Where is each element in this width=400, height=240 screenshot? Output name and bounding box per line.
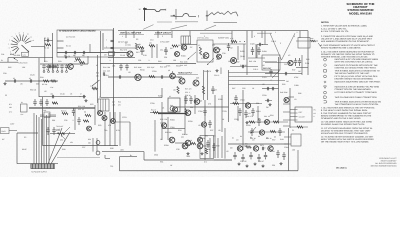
svg-text:R48 250K: R48 250K — [280, 91, 288, 94]
label br — [232, 135, 276, 140]
waveform W3 trace — [208, 11, 239, 16]
capacitor C61 — [282, 152, 285, 160]
ground — [85, 99, 87, 100]
capacitor C1B — [106, 45, 114, 48]
transistor Q29 — [161, 123, 166, 128]
wire stub5 — [289, 96, 295, 98]
capacitor C2 row — [46, 65, 57, 71]
capacitor C29 — [52, 127, 55, 135]
potentiometer RV1 — [50, 129, 75, 139]
transistor Q30 — [201, 122, 206, 127]
wire — [256, 45, 258, 59]
transistor Q21 — [284, 97, 289, 102]
transistor Q5 — [168, 69, 175, 79]
label cluster2 — [112, 100, 121, 106]
label SWEEP — [154, 32, 172, 35]
svg-text:B. FILM TYPES ARE 1% TOL.: B. FILM TYPES ARE 1% TOL. — [321, 30, 349, 33]
transistor Q25 — [253, 146, 258, 151]
svg-text:WITH THE CONTROLS SET AS LISTE: WITH THE CONTROLS SET AS LISTED. — [335, 61, 374, 64]
ground — [280, 162, 282, 163]
heavy signal path — [158, 113, 186, 115]
wire — [200, 32, 232, 34]
svg-text:R12 470: R12 470 — [120, 48, 127, 51]
wire — [228, 70, 230, 122]
wire — [0, 61, 18, 63]
svg-text:THE METAL CHASSIS OF THE UNIT.: THE METAL CHASSIS OF THE UNIT. — [335, 72, 370, 75]
svg-text:2071: 2071 — [260, 144, 264, 147]
capacitor C43 — [257, 47, 260, 55]
resistor R10 — [149, 42, 155, 47]
wire — [100, 77, 102, 97]
svg-text:Q19A: Q19A — [240, 55, 245, 58]
resistor R3 — [75, 56, 82, 61]
wire — [278, 57, 280, 122]
capacitor C19 — [125, 64, 128, 71]
capacitor C20 — [118, 75, 120, 78]
transistor Q8 — [111, 119, 116, 124]
wire — [297, 150, 299, 171]
relay box K1 — [21, 101, 28, 116]
symbol note E — [324, 81, 381, 84]
svg-text:C57: C57 — [82, 146, 85, 149]
wire — [248, 57, 265, 59]
resistor R4 — [79, 61, 85, 66]
capacitor C66 — [241, 65, 243, 68]
svg-text:CAL: CAL — [23, 53, 26, 56]
wire — [229, 80, 286, 82]
capacitor C54 — [212, 143, 215, 151]
wire — [144, 159, 232, 161]
wire — [154, 120, 156, 152]
transistor Q19B — [231, 58, 237, 64]
transistor Q19 — [217, 54, 222, 59]
transistor Q11 — [170, 104, 178, 112]
svg-text:R63 1K: R63 1K — [30, 88, 37, 91]
capacitor C57 — [241, 154, 244, 161]
svg-text:C65: C65 — [242, 87, 245, 90]
svg-text:R45 1.5K: R45 1.5K — [249, 60, 257, 63]
wire — [96, 138, 98, 152]
svg-text:T1: T1 — [99, 96, 101, 99]
svg-text:C58 .02: C58 .02 — [240, 160, 246, 163]
label notes small — [56, 125, 63, 131]
svg-text:C12A: C12A — [30, 74, 35, 77]
wire — [175, 106, 229, 108]
note 4 — [321, 50, 375, 58]
svg-text:C11 .05: C11 .05 — [160, 48, 166, 51]
waveform W1 trace — [145, 9, 166, 12]
capacitor C55 — [261, 147, 263, 150]
svg-text:R60 47: R60 47 — [258, 160, 264, 163]
label pair — [78, 105, 86, 111]
resistor R22 — [85, 114, 91, 116]
svg-text:R30A: R30A — [218, 98, 223, 101]
wire stub4 — [283, 125, 290, 127]
svg-text:R42 100K: R42 100K — [180, 61, 188, 64]
capacitor C50 — [271, 87, 273, 90]
potentiometer arrow2 — [207, 58, 214, 65]
wire — [57, 63, 88, 65]
wire — [133, 31, 135, 38]
svg-text:C62: C62 — [236, 60, 239, 63]
wire — [255, 44, 257, 58]
wire — [40, 63, 88, 65]
svg-text:C21A: C21A — [104, 74, 109, 77]
wire — [120, 170, 299, 172]
wire — [167, 117, 169, 140]
label CRT — [263, 61, 277, 70]
note 1 — [321, 25, 367, 33]
wire — [161, 102, 163, 140]
wire — [214, 95, 216, 158]
wire — [301, 55, 303, 75]
resistor R73 — [83, 120, 89, 122]
transistor Q17 — [181, 45, 186, 50]
wire — [104, 112, 106, 146]
svg-text:2: 2 — [275, 31, 276, 34]
capacitor C53 — [206, 140, 209, 148]
ground — [4, 82, 6, 83]
wire — [262, 88, 279, 90]
wire — [57, 52, 128, 54]
capacitor C3 — [64, 51, 67, 57]
wire — [189, 31, 191, 36]
resistor R49 — [290, 126, 308, 128]
terminal box — [22, 52, 29, 56]
ground — [187, 152, 189, 153]
svg-text:R33 2.2K: R33 2.2K — [160, 118, 168, 121]
wire — [162, 128, 185, 130]
svg-text:C22 47pF: C22 47pF — [147, 66, 154, 69]
wire — [101, 97, 162, 99]
ground — [65, 55, 67, 56]
shield box (top-left) — [57, 30, 113, 57]
wire — [119, 112, 121, 146]
svg-text:MODEL HM-2140: MODEL HM-2140 — [349, 11, 372, 15]
potentiometer arrow4 — [251, 127, 257, 134]
svg-text:B+: B+ — [130, 154, 132, 157]
wire — [220, 68, 222, 75]
wire — [248, 131, 285, 133]
svg-text:Q1: Q1 — [68, 55, 70, 58]
svg-text:R19: R19 — [178, 44, 181, 47]
wire — [5, 80, 58, 82]
svg-text:D9: D9 — [230, 147, 232, 150]
wire — [94, 105, 96, 125]
svg-text:C31 .1: C31 .1 — [185, 91, 190, 94]
note 3 — [321, 44, 376, 50]
wire pin2 — [290, 112, 295, 114]
wire — [51, 132, 70, 164]
wire — [39, 96, 86, 98]
svg-text:R66 470: R66 470 — [204, 70, 211, 73]
svg-text:3: 3 — [204, 35, 205, 38]
capacitor C16 — [140, 47, 145, 55]
svg-text:IC1: IC1 — [204, 161, 207, 164]
capacitor C49 — [266, 87, 268, 90]
svg-text:C60: C60 — [52, 102, 55, 105]
svg-text:C59: C59 — [3, 72, 6, 75]
ground — [262, 165, 264, 166]
wire — [102, 33, 104, 50]
transistor Q1 — [68, 64, 74, 70]
transistor Q27 — [96, 141, 100, 145]
capacitor C48 — [284, 72, 286, 75]
svg-text:C45 .1: C45 .1 — [253, 68, 258, 71]
svg-text:C38: C38 — [176, 148, 179, 151]
wire — [231, 31, 233, 44]
svg-text:S2: S2 — [136, 38, 138, 41]
wire — [113, 28, 115, 122]
svg-text:ERATOR CONNECTED AS DESCRIBED.: ERATOR CONNECTED AS DESCRIBED. — [335, 78, 374, 81]
resistor R72 — [52, 102, 58, 104]
wire — [119, 157, 121, 171]
wire — [40, 115, 56, 117]
potentiometer arrow — [188, 52, 197, 60]
waveform W1 axis — [139, 8, 147, 22]
capacitor C70 — [238, 108, 241, 116]
note 12 — [321, 135, 374, 143]
wire — [213, 43, 214, 45]
capacitor C33 — [184, 96, 187, 104]
svg-text:C51A: C51A — [240, 99, 245, 102]
svg-text:R54: R54 — [270, 114, 273, 117]
capacitor C56 — [233, 152, 236, 159]
svg-text:R23: R23 — [90, 103, 93, 106]
capacitor C1A — [106, 38, 114, 41]
svg-text:.01: .01 — [248, 112, 251, 115]
resistor R46 — [310, 37, 316, 42]
svg-text:R80 4.7K: R80 4.7K — [246, 115, 254, 118]
transistor Q35 — [259, 130, 264, 135]
svg-text:C63: C63 — [284, 63, 287, 66]
wire — [214, 43, 246, 45]
svg-text:R41 10K: R41 10K — [214, 48, 222, 51]
wire — [224, 128, 226, 159]
svg-text:R59: R59 — [62, 148, 65, 151]
wire — [296, 40, 318, 42]
svg-text:HORIZ OUTPUT: HORIZ OUTPUT — [178, 72, 193, 75]
svg-text:C61: C61 — [138, 59, 141, 62]
callout funnel — [270, 33, 295, 60]
svg-text:C33A: C33A — [150, 102, 155, 105]
svg-text:C35A: C35A — [198, 110, 203, 113]
svg-text:BENTON HARBOR MICHIGAN: BENTON HARBOR MICHIGAN — [371, 164, 397, 167]
transistor Q28 — [96, 151, 100, 155]
crt box — [262, 55, 280, 70]
wire — [57, 47, 64, 49]
svg-text:.05: .05 — [218, 129, 221, 132]
wire — [151, 44, 153, 58]
svg-text:220: 220 — [272, 164, 275, 167]
capacitor C7 — [47, 64, 50, 73]
transformer T1 — [98, 96, 109, 111]
label cluster3 — [185, 87, 192, 97]
wire — [264, 31, 266, 45]
label bm — [88, 138, 91, 144]
rotary switch SW1 wiper — [22, 45, 30, 52]
svg-text:.1: .1 — [270, 79, 272, 82]
wire — [229, 76, 279, 78]
symbol note G — [324, 91, 378, 94]
capacitor C71 — [244, 110, 247, 118]
svg-text:Y1: Y1 — [198, 44, 200, 47]
resistor R38 — [205, 148, 210, 154]
transistor Q6 — [98, 111, 103, 116]
capacitor C14 — [50, 93, 54, 99]
svg-text:2.2M: 2.2M — [305, 62, 310, 65]
svg-text:ATTENUATOR INPUT CIRCUIT BO: ATTENUATOR INPUT CIRCUIT BOARD — [59, 30, 96, 33]
svg-text:THIS IS A SHIELDED CABLE CONNE: THIS IS A SHIELDED CABLE CONNECTION. — [335, 96, 378, 99]
svg-text:C8: C8 — [104, 54, 106, 57]
capacitor C44 — [294, 58, 297, 66]
ground — [246, 165, 248, 166]
wire — [118, 30, 308, 32]
svg-text:C21 .005: C21 .005 — [103, 69, 110, 72]
transistor Q34 — [265, 120, 270, 125]
svg-text:R36 1K: R36 1K — [182, 133, 189, 136]
capacitor C74 — [33, 99, 36, 106]
resistor R53 — [245, 142, 251, 148]
symbol note F — [324, 86, 380, 92]
potentiometer arrow3 — [272, 71, 280, 79]
svg-text:R35A: R35A — [164, 144, 169, 147]
svg-text:.02: .02 — [44, 90, 47, 93]
capacitor C13 — [29, 77, 32, 83]
wire — [31, 45, 45, 47]
svg-text:CHASSIS GROUND, LINE VOLTAGE A: CHASSIS GROUND, LINE VOLTAGE AT 120 VAC. — [321, 55, 368, 58]
ground — [201, 152, 203, 153]
wire bundle to connector — [34, 113, 49, 164]
svg-text:1: 1 — [122, 35, 123, 38]
svg-text:C55A: C55A — [270, 150, 275, 153]
svg-text:1. RESISTOR VALUES ARE IN OHM: 1. RESISTOR VALUES ARE IN OHMS (K=1,000)… — [321, 25, 367, 28]
wire stub2 — [283, 111, 290, 113]
transistor Q15 — [197, 137, 202, 142]
wire — [129, 122, 131, 146]
wire — [125, 31, 127, 38]
svg-text:TP1: TP1 — [110, 165, 113, 168]
svg-text:R57: R57 — [272, 139, 275, 142]
label AF section — [177, 72, 198, 75]
capacitor C34 — [189, 96, 192, 104]
wire — [296, 67, 308, 69]
rotary switch SW1 wafer — [8, 31, 34, 56]
svg-text:417: 417 — [74, 60, 77, 63]
capacitor C35 — [203, 108, 206, 116]
capacitor C8 — [51, 64, 54, 73]
svg-text:C36A: C36A — [170, 126, 175, 129]
svg-text:D8: D8 — [266, 106, 268, 109]
svg-text:F1: F1 — [292, 129, 294, 132]
svg-text:C1 R2 470K: C1 R2 470K — [66, 36, 76, 39]
wiper arrow on wire — [14, 58, 19, 61]
wire — [243, 44, 245, 60]
labels mid — [160, 118, 168, 124]
svg-text:470: 470 — [108, 124, 111, 127]
wire — [307, 31, 309, 75]
note 9 — [321, 112, 372, 120]
edge connector P1 — [31, 164, 55, 169]
resistor R82 — [270, 130, 276, 132]
transistor Q24 — [237, 146, 242, 151]
wire — [97, 55, 99, 103]
svg-text:R55: R55 — [282, 83, 285, 86]
waveform W1 baseline — [157, 21, 172, 23]
svg-text:SCHEMATIC AND ON THE X-RAY VIE: SCHEMATIC AND ON THE X-RAY VIEWS. — [321, 117, 361, 120]
resistor R31 — [151, 109, 159, 114]
capacitor C51 — [266, 99, 268, 102]
terminal arrow — [318, 43, 321, 47]
svg-text:C22A: C22A — [152, 70, 157, 73]
wire — [221, 95, 223, 132]
svg-text:AS MUCH AS 20% DUE TO PART TOL: AS MUCH AS 20% DUE TO PART TOLERANCES. — [321, 132, 368, 135]
svg-text:GND: GND — [154, 153, 159, 156]
capacitor C46 — [259, 43, 263, 46]
capacitor C45 — [298, 58, 301, 66]
svg-text:R56: R56 — [298, 92, 301, 95]
wire — [48, 128, 62, 164]
capacitor C12 — [13, 77, 16, 83]
svg-text:SYNC AMP: SYNC AMP — [160, 41, 170, 44]
transistor Q31 — [185, 110, 191, 116]
regulator box — [200, 136, 214, 159]
svg-text:THE COMPONENT LEAD AT THIS LOC: THE COMPONENT LEAD AT THIS LOCATION. — [335, 103, 379, 106]
wire — [257, 44, 268, 46]
label bm2 — [60, 138, 74, 144]
wire — [175, 142, 185, 144]
label bm3 — [205, 134, 216, 137]
wire — [92, 138, 94, 152]
wire — [157, 31, 159, 38]
symbol note I — [324, 100, 382, 106]
wire pin3 — [290, 116, 295, 118]
transistor Q13 — [169, 137, 175, 143]
wire — [217, 138, 219, 158]
svg-text:R25: R25 — [98, 124, 101, 127]
wire — [209, 138, 211, 158]
transistor Q33 — [87, 126, 92, 131]
svg-text:R21 2.2K: R21 2.2K — [78, 105, 86, 108]
note 11 — [321, 127, 373, 135]
resistor R20 — [61, 109, 68, 114]
capacitor C81 — [257, 118, 260, 126]
wire — [242, 90, 244, 150]
waveform W2 trace — [171, 13, 199, 17]
svg-text:470: 470 — [258, 118, 261, 121]
wire — [104, 47, 136, 49]
resistor R5 — [42, 80, 49, 86]
wire — [229, 84, 279, 86]
symbol note H — [324, 96, 378, 99]
capacitor C83 — [278, 128, 281, 136]
svg-text:2: 2 — [280, 42, 281, 45]
label mr — [246, 115, 272, 140]
svg-text:SWEEP CIRCUIT: SWEEP CIRCUIT — [155, 32, 172, 35]
transistor Q14 — [185, 140, 191, 146]
transistor Q3 — [175, 52, 180, 57]
wire — [150, 112, 176, 114]
wire — [120, 156, 138, 158]
svg-text:CONTROL AS VIEWED FROM THE FRO: CONTROL AS VIEWED FROM THE FRONT. — [335, 66, 377, 69]
transistor Q22 — [181, 135, 188, 148]
svg-text:4: 4 — [254, 35, 255, 38]
wire — [228, 143, 289, 145]
capacitor C32 — [211, 86, 217, 94]
svg-text:C46 5: C46 5 — [271, 40, 276, 43]
svg-text:.005: .005 — [120, 148, 124, 151]
svg-text:R19B: R19B — [46, 107, 51, 110]
